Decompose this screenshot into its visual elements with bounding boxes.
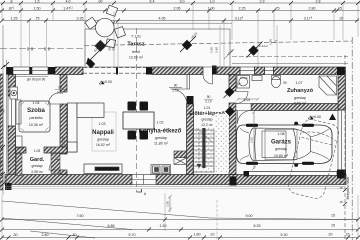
svg-text:90: 90 <box>2 109 6 113</box>
